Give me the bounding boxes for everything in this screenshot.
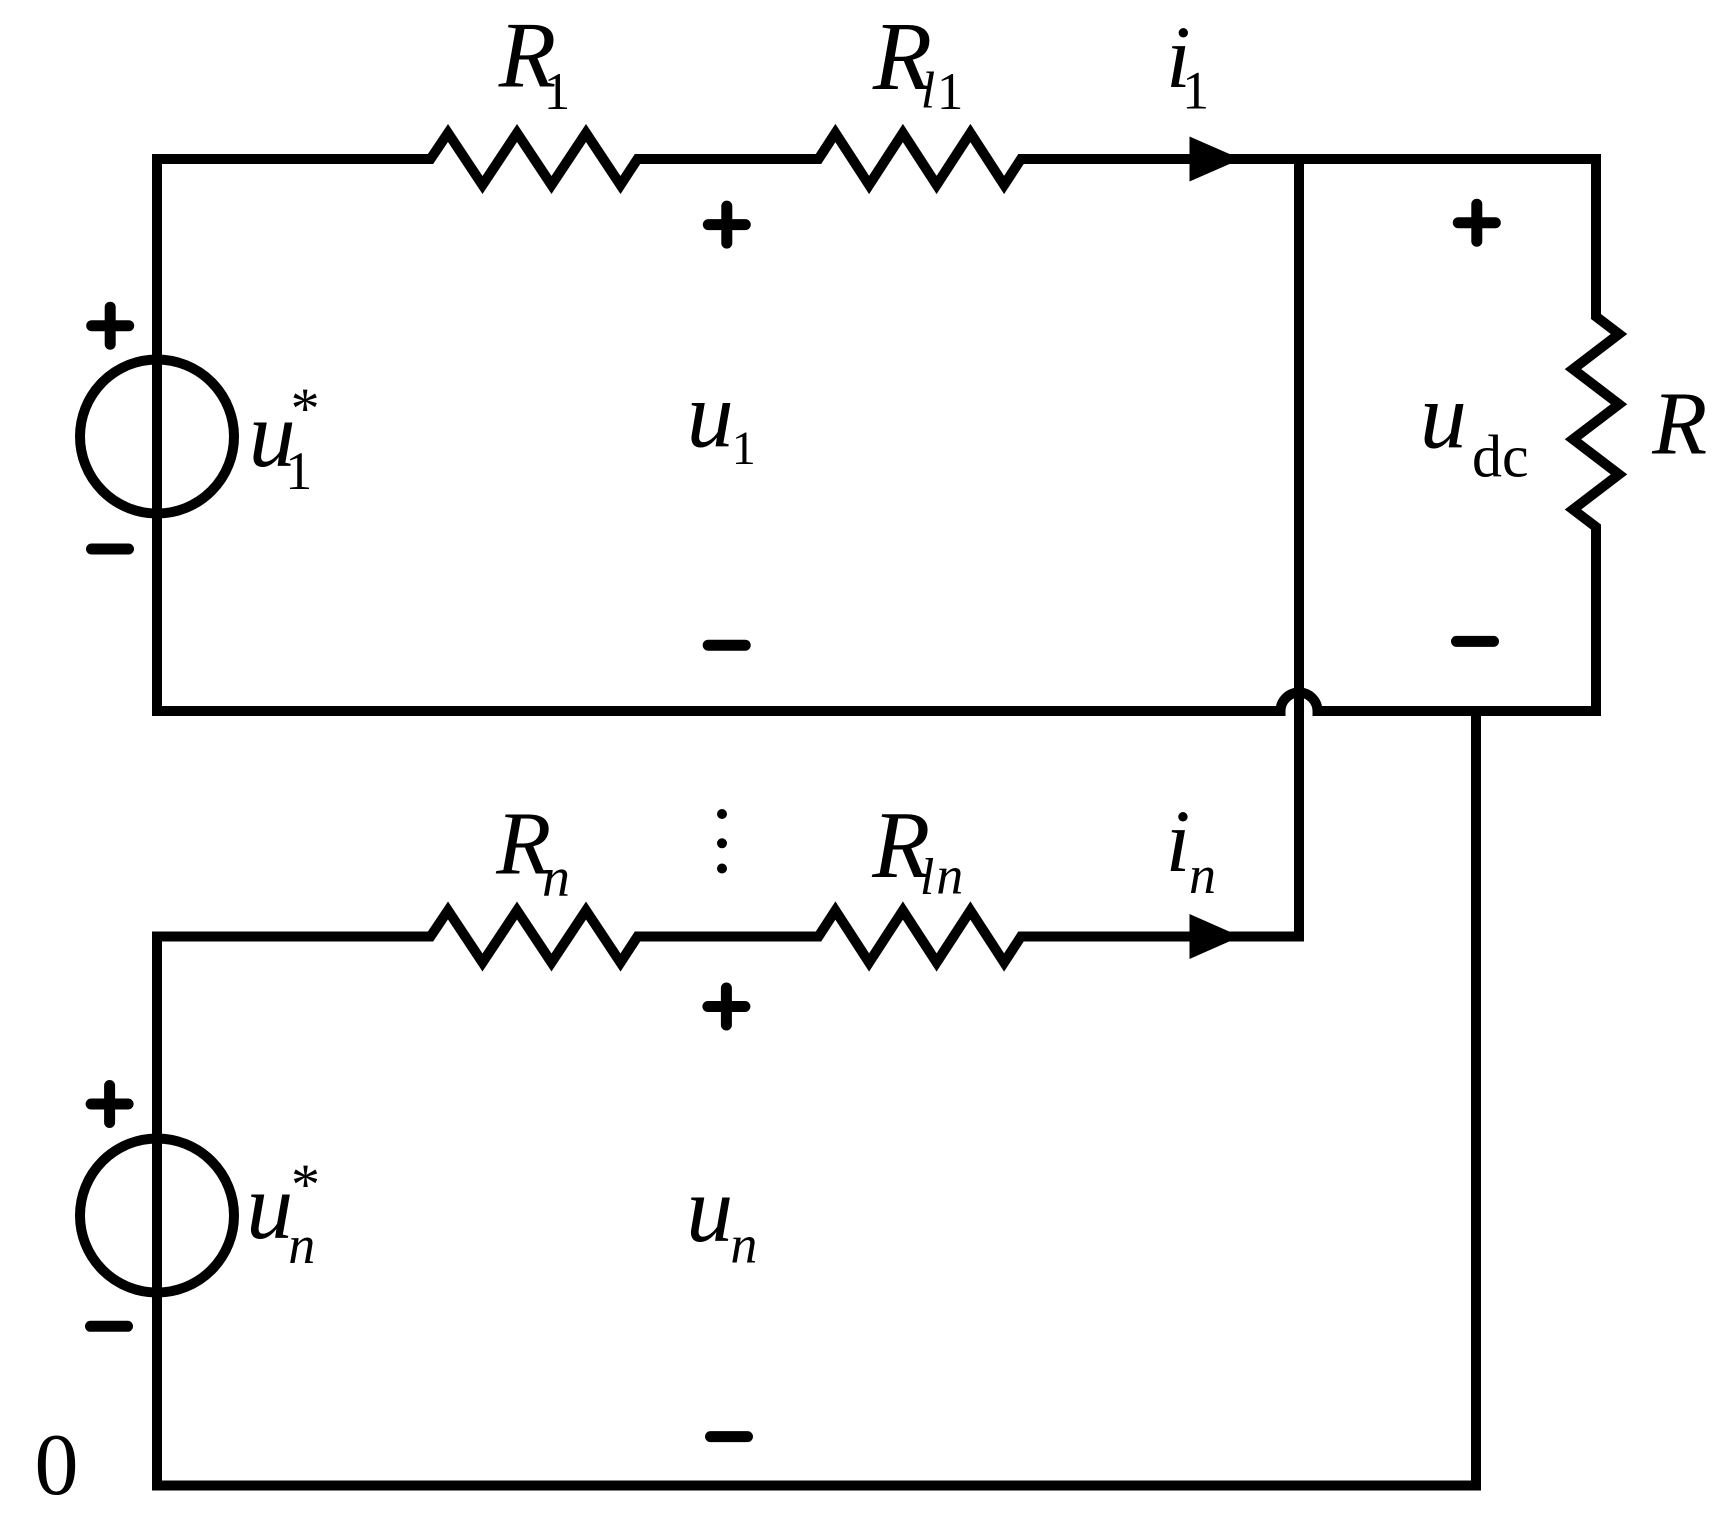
svg-text:u: u [246,1155,293,1259]
svg-text:1: 1 [1182,61,1209,121]
svg-text:dc: dc [1472,424,1529,490]
svg-text:0: 0 [35,1417,79,1514]
svg-text:*: * [291,376,320,441]
svg-text:1: 1 [732,422,756,475]
svg-text:i: i [1166,793,1191,891]
svg-text:l: l [920,849,934,906]
svg-text:1: 1 [544,63,571,121]
svg-text:u: u [686,1158,733,1262]
svg-text:n: n [1189,845,1216,905]
svg-text:1: 1 [937,63,964,121]
svg-text:1: 1 [285,441,312,501]
svg-text:R: R [1651,375,1707,474]
svg-text:n: n [288,1215,315,1275]
svg-text:u: u [1420,365,1467,469]
svg-text:n: n [542,847,570,909]
svg-text:l: l [921,62,935,119]
svg-text:*: * [291,1152,320,1217]
svg-text:n: n [730,1215,757,1275]
svg-text:n: n [936,846,963,906]
svg-text:u: u [687,363,734,467]
